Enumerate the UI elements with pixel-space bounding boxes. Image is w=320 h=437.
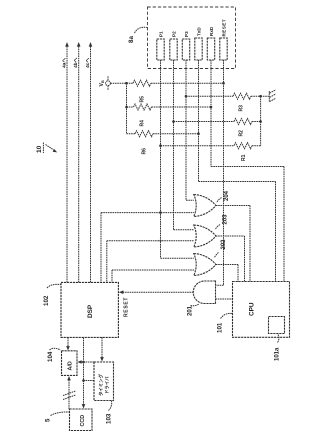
svg-text:4bへ: 4bへ (73, 57, 79, 68)
wire pin RxD line to CPU (211, 60, 284, 282)
wire DSP output bus a with arrow (62, 42, 69, 282)
junction R3 row at pin P3 line (185, 95, 188, 98)
svg-text:101a: 101a (275, 347, 281, 361)
pin P2 (170, 31, 177, 60)
wire VB to R5 row (110, 82, 133, 84)
resistor R5 (133, 80, 151, 102)
junction R2 row at pin P2 line (172, 120, 175, 123)
wire DSP output bus b with arrow (73, 42, 80, 282)
wire ground column (260, 96, 262, 146)
sub-block 101a (269, 317, 285, 334)
power VB (99, 76, 110, 90)
ccd 5 box (70, 409, 93, 431)
wire DSP to AFE node (83, 338, 85, 363)
pin RxD (207, 26, 214, 60)
junction VB column top (125, 82, 128, 85)
svg-text:CCD: CCD (80, 415, 86, 427)
resistor R4 (127, 104, 152, 127)
resistor R3 (186, 93, 261, 111)
svg-text:101: 101 (217, 322, 224, 333)
junction R4 row at pin RxD line (210, 106, 213, 109)
svg-text:TxD: TxD (197, 27, 202, 36)
ground (261, 90, 276, 102)
pin TxD (195, 27, 202, 60)
junction ground column mid (259, 120, 262, 123)
pin P3 (182, 31, 189, 60)
figure label 10 with arrow (36, 143, 57, 154)
wire gate 201 lower input from CPU (216, 298, 233, 300)
pin RESET (220, 19, 227, 60)
svg-text:5: 5 (45, 418, 52, 422)
svg-text:DSP: DSP (87, 304, 94, 318)
wire pin TxD line to CPU (199, 60, 276, 282)
svg-text:RESET: RESET (222, 19, 227, 37)
svg-text:P3: P3 (184, 31, 189, 37)
wire AFE to CCD with arrow (82, 362, 94, 409)
svg-text:4aへ: 4aへ (62, 58, 68, 68)
wire R6 row to TxD pin line (153, 133, 199, 135)
svg-text:4cへ: 4cへ (85, 58, 91, 68)
resistor R6 (127, 131, 154, 155)
wire R4 row to RxD pin line (152, 106, 212, 108)
svg-text:R6: R6 (142, 148, 148, 155)
svg-text:103: 103 (106, 413, 113, 424)
wire AFE to ADC with arrow (77, 360, 94, 364)
junction R5 row at pin RESET line (222, 82, 225, 85)
adc 104 box (62, 351, 78, 376)
wire CCD to ADC with arrow (67, 376, 71, 409)
or-gate 204 (194, 190, 230, 216)
connector block 8a dashed enclosure (148, 7, 236, 69)
svg-text:R3: R3 (239, 105, 245, 112)
svg-text:R1: R1 (241, 154, 247, 161)
junction AFE to CCD branch (82, 379, 85, 382)
resistor R2 (174, 119, 261, 137)
junction R6 row at pin TxD line (197, 132, 200, 135)
wire VB column (126, 83, 128, 134)
or-gate 203 (194, 214, 229, 247)
svg-text:タイミング: タイミング (98, 373, 105, 396)
svg-text:R2: R2 (239, 130, 245, 137)
label 5 (45, 412, 70, 422)
wire gate 204 output to CPU (216, 206, 250, 282)
dsp 102 box (61, 282, 118, 337)
wire gate 203 output to CPU (216, 236, 245, 282)
junction P1 at DSP line a (159, 211, 162, 214)
afe 103 box (94, 362, 114, 401)
svg-text:204: 204 (224, 190, 230, 201)
wire pin P3 line (186, 60, 194, 200)
svg-text:RESET: RESET (124, 297, 130, 317)
junction R1 row at pin P1 line (159, 144, 162, 147)
wire pin P2 line (174, 60, 194, 230)
label 102 (43, 284, 61, 306)
label 104 (47, 348, 61, 362)
wire gate 202 output to CPU (216, 265, 238, 282)
wire DSP port line a (101, 213, 194, 283)
svg-text:P1: P1 (159, 31, 164, 37)
svg-text:10: 10 (36, 145, 43, 153)
junction VB column R4 (125, 106, 128, 109)
label 101 (217, 313, 233, 333)
pin P1 (157, 31, 164, 60)
cpu 101 box (233, 282, 290, 338)
or-gate 202 (194, 239, 227, 276)
wire pin RESET line to gate 201 (216, 60, 224, 285)
svg-text:P2: P2 (172, 31, 177, 37)
svg-text:VB: VB (99, 80, 105, 86)
junction ground column top (259, 95, 262, 98)
svg-text:R5: R5 (140, 96, 146, 103)
wire DSP to AFE with arrow (100, 338, 104, 362)
wire R5 row to RESET pin line (151, 82, 224, 84)
resistor R1 (161, 143, 261, 161)
wire DSP output bus c with arrow (85, 42, 92, 282)
junction AFE output node (82, 361, 85, 364)
svg-text:8a: 8a (128, 36, 135, 43)
signal break marks (63, 391, 76, 400)
wire DSP to ADC with arrow (66, 338, 70, 351)
svg-text:RxD: RxD (209, 26, 214, 36)
svg-text:201: 201 (188, 305, 194, 316)
junction P1 at DSP line b (159, 240, 161, 242)
svg-text:202: 202 (221, 239, 227, 250)
wire pin P1 line (161, 60, 194, 258)
svg-text:102: 102 (43, 295, 50, 306)
wire RESET from gate 201 to DSP (119, 290, 194, 317)
svg-text:ドライバ: ドライバ (105, 376, 111, 394)
wire DSP port line b (107, 241, 194, 283)
label 101a (275, 334, 281, 361)
and-gate 201 (188, 281, 216, 316)
label 8a (128, 27, 148, 43)
svg-text:R4: R4 (140, 120, 146, 127)
svg-text:CPU: CPU (249, 302, 256, 316)
svg-text:104: 104 (47, 351, 54, 362)
label 103 (106, 401, 113, 424)
svg-text:203: 203 (223, 214, 229, 225)
svg-text:A/D: A/D (68, 361, 74, 370)
wire DSP port line c (112, 270, 194, 282)
